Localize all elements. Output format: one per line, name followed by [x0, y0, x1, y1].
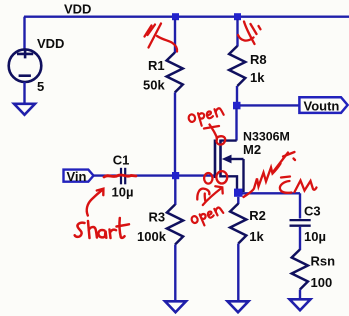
svg-text:Vin: Vin [67, 169, 87, 184]
annotation red circle on channel [216, 171, 227, 183]
voltage source minus sign [19, 74, 31, 77]
svg-text:10µ: 10µ [112, 185, 134, 200]
ground under Rsn [290, 299, 311, 310]
annotation red hash marks at R8 [238, 22, 261, 45]
svg-text:VDD: VDD [37, 36, 64, 51]
annotation red hash marks at R1 [145, 24, 178, 52]
wire J1 to R1 [174, 19, 176, 53]
annotation red circle on gate wire [204, 173, 212, 184]
transistor M2 gate bar [214, 140, 217, 179]
svg-text:R2: R2 [249, 208, 266, 223]
wire J4 to R3 [174, 179, 176, 205]
flag Vin [64, 170, 94, 182]
voltage source V1 VDD circle [9, 49, 42, 82]
wire C1 to J4 [126, 174, 172, 176]
wire Vin to C1 [94, 174, 121, 176]
wire drain lead [235, 108, 237, 141]
svg-text:M2: M2 [243, 142, 261, 157]
svg-text:50k: 50k [143, 77, 165, 92]
resistor R2 [230, 204, 246, 244]
annotation red short streak over C1 [104, 175, 136, 177]
svg-text:10µ: 10µ [304, 229, 326, 244]
resistor R1 [167, 53, 183, 93]
junction J1 top of R1 [172, 13, 179, 20]
annotation big squiggle right of J5 [244, 152, 317, 197]
svg-text:Voutn: Voutn [304, 98, 340, 113]
junction J4 gate node [172, 172, 179, 179]
resistor R3 [167, 205, 183, 245]
capacitor C1 plate left [120, 168, 122, 185]
wire J4 to gate [179, 174, 214, 176]
wire J2 to R8 [236, 19, 238, 47]
svg-text:VDD: VDD [64, 2, 91, 17]
ground under source [14, 104, 35, 115]
wire VDD top rail [24, 16, 349, 18]
capacitor C3 plate top [290, 219, 311, 221]
wire J3 to Voutn [240, 104, 300, 106]
junction J2 top of R8 [234, 13, 241, 20]
transistor M2 drain stub [221, 139, 237, 141]
wire VDD source to rail [23, 17, 25, 50]
flag Voutn [299, 97, 347, 113]
annotation red arrow to source node [203, 188, 222, 205]
wire R1 to node J4 [174, 93, 176, 176]
wire J5 to C3 branch [242, 192, 300, 194]
wire C3 branch down [299, 193, 301, 218]
annotation red hook to R1 [157, 36, 177, 52]
svg-text:100k: 100k [137, 229, 167, 244]
junction J5 source node [234, 189, 243, 197]
wire Rsn to ground [299, 290, 301, 300]
capacitor C1 plate right [124, 168, 126, 185]
transistor M2 source stub [221, 176, 238, 190]
wire R8 to J3 [236, 86, 238, 105]
svg-text:C1: C1 [113, 152, 130, 167]
svg-text:100: 100 [311, 275, 333, 290]
svg-text:C3: C3 [304, 203, 321, 218]
annotation open text 2 [191, 207, 225, 229]
resistor Rsn [292, 250, 308, 290]
annotation red arrow above short [87, 189, 104, 216]
annotation arc tail [204, 194, 207, 202]
ground under R2 [228, 301, 249, 312]
wire R2 to ground [237, 244, 239, 302]
voltage source plus sign [17, 49, 33, 58]
annotation red loop at drain stub [217, 136, 226, 144]
junction J3 drain node [233, 102, 241, 110]
svg-text:1k: 1k [249, 229, 264, 244]
wire R3 to ground [174, 245, 176, 302]
annotation red diagonal to drain stub [210, 125, 218, 138]
transistor M2 arrow head [222, 155, 232, 164]
transistor M2 channel bar [219, 140, 222, 178]
svg-text:1k: 1k [250, 70, 265, 85]
svg-text:5: 5 [37, 79, 44, 94]
wire C3 to Rsn [299, 227, 301, 250]
annotation red arc at R8 lead [238, 35, 254, 41]
resistor R8 [229, 46, 245, 86]
svg-text:R1: R1 [148, 58, 165, 73]
transistor M2 arrow stub [231, 158, 244, 160]
svg-text:R3: R3 [149, 210, 166, 225]
annotation open text 1 [188, 108, 225, 128]
annotation red dash under open1 [204, 126, 219, 129]
ground under R3 [165, 301, 186, 312]
transistor M2 bulk lead [242, 159, 244, 192]
svg-text:R8: R8 [250, 52, 267, 67]
svg-text:Rsn: Rsn [311, 254, 336, 269]
wire J5 to R2 [237, 197, 239, 204]
annotation short text [75, 218, 129, 238]
capacitor C3 plate bottom [290, 225, 311, 227]
wire source to ground [23, 82, 25, 104]
annotation curly arc [197, 189, 209, 200]
